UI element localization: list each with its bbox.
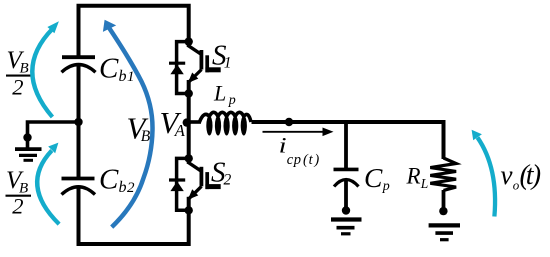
label VB (bus voltage) <box>127 110 151 145</box>
arrow cyan bottom-left (lower half-bus polarity) <box>37 143 59 225</box>
S1 collector diagonal <box>188 45 202 54</box>
svg-text:): ) <box>313 152 319 168</box>
svg-text:p: p <box>382 179 390 194</box>
inductor Lp <box>200 112 252 135</box>
label S1 <box>212 40 232 72</box>
node dot on ground stem <box>23 133 31 141</box>
label RL <box>406 164 429 192</box>
ground (under RL) <box>429 225 460 239</box>
wire S1 diode branch <box>177 42 189 94</box>
label VB/2 (bottom) <box>6 167 32 218</box>
svg-text:b: b <box>119 68 127 85</box>
S2 gate bar <box>205 172 209 189</box>
transistor S1 (IGBT with anti-parallel diode D1) <box>169 37 221 97</box>
diode D2 cathode bar <box>169 178 185 181</box>
node S2 bottom junction <box>185 206 193 214</box>
S2 collector diagonal <box>188 162 202 171</box>
node S1 bottom junction <box>185 89 193 97</box>
node VA junction <box>183 118 191 126</box>
S1 IGBT bar <box>199 50 203 70</box>
label VB/2 (top) <box>6 47 32 99</box>
svg-text:2: 2 <box>12 74 23 99</box>
svg-text:R: R <box>406 164 421 189</box>
node junction after inductor <box>285 118 293 126</box>
capacitor Cb1 <box>62 57 96 72</box>
wire Cp stem top <box>344 120 348 169</box>
svg-text:C: C <box>99 52 119 84</box>
wire RL to ground <box>442 190 446 212</box>
diode D1 triangle <box>170 64 183 74</box>
node junction left rail / ground tap <box>74 118 82 126</box>
node dot RL ground <box>439 207 447 215</box>
svg-text:L: L <box>213 81 226 106</box>
label VA <box>160 105 186 140</box>
node S1 top junction <box>185 37 193 45</box>
wire bottom rail (left rail bottom, bottom wire, switch leg bottom) <box>79 188 189 244</box>
label i_cp(t) <box>279 133 320 168</box>
S1 gate lead <box>205 67 220 72</box>
svg-text:A: A <box>174 121 186 140</box>
arrow blue VB (bus voltage arrow) <box>103 20 153 227</box>
wire top rail (left rail top, top wire, switch leg top) <box>79 6 189 58</box>
label Lp <box>213 81 236 108</box>
svg-text:L: L <box>420 176 429 191</box>
svg-text:2: 2 <box>224 172 232 189</box>
wire node VA to inductor <box>188 120 201 124</box>
S2 emitter wire stub <box>187 197 191 212</box>
label Cb2 <box>99 164 135 197</box>
diode D1 cathode bar <box>169 62 185 65</box>
S2 IGBT bar <box>199 167 203 187</box>
svg-text:b: b <box>119 179 127 196</box>
S1 emitter wire stub <box>187 80 191 95</box>
diode D2 triangle <box>170 181 183 191</box>
wire inductor to right corner and down to RL <box>252 122 444 159</box>
node dot Cp ground <box>342 206 350 214</box>
label vo(t) <box>501 160 542 193</box>
S1 emitter arrowhead <box>188 73 199 84</box>
wire left rail middle <box>77 66 81 178</box>
svg-text:): ) <box>530 160 541 191</box>
wire S2 diode branch <box>177 158 189 210</box>
current arrow i_cp <box>263 128 334 137</box>
svg-text:c: c <box>287 152 294 168</box>
S1 gate bar <box>205 55 209 72</box>
label Cp <box>364 162 390 194</box>
S1 collector wire stub <box>187 40 191 47</box>
S1 emitter diagonal <box>189 70 201 82</box>
ground (under Cp) <box>331 220 362 234</box>
svg-text:2: 2 <box>127 180 135 196</box>
svg-text:B: B <box>141 128 151 145</box>
svg-text:C: C <box>364 162 383 193</box>
svg-text:v: v <box>501 160 513 190</box>
wire switch leg between S1 and node VA <box>187 94 191 159</box>
S2 emitter arrowhead <box>188 189 199 200</box>
capacitor Cp <box>334 169 359 186</box>
capacitor Cb2 <box>62 179 96 195</box>
label S2 <box>211 156 232 188</box>
resistor RL <box>430 158 456 190</box>
svg-text:p: p <box>293 152 301 168</box>
svg-text:C: C <box>99 164 119 196</box>
label Cb1 <box>99 52 135 85</box>
node S2 top junction <box>185 154 193 162</box>
svg-text:2: 2 <box>12 193 23 218</box>
svg-text:i: i <box>279 133 287 158</box>
svg-text:1: 1 <box>224 55 232 72</box>
S2 collector wire stub <box>187 157 191 164</box>
arrow cyan right (output voltage polarity) <box>472 130 495 217</box>
transistor S2 (IGBT with anti-parallel diode D2) <box>169 154 221 214</box>
S2 emitter diagonal <box>189 186 201 198</box>
svg-text:p: p <box>228 93 236 108</box>
S2 gate lead <box>205 184 220 189</box>
ground (left) <box>15 149 42 160</box>
wire Cp stem bottom <box>344 180 348 212</box>
arrow cyan top-left (upper half-bus polarity) <box>32 21 59 117</box>
wire ground tap <box>28 122 79 148</box>
svg-text:1: 1 <box>127 69 135 85</box>
